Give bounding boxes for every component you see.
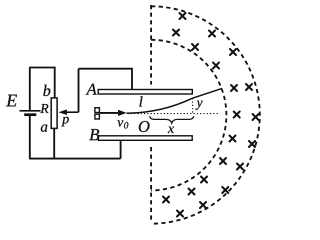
trajectory [127,88,223,113]
wire up to plate B [120,140,122,159]
wire slider up [78,69,80,113]
label O [139,121,150,132]
label a [41,125,47,132]
resistor R box [51,98,57,128]
field-into-page mark x6 [213,63,219,69]
field-into-page mark x14 [237,164,243,170]
battery E [20,111,41,115]
outer field arc [151,6,260,223]
field-into-page mark x11 [230,136,236,142]
wire resistor bottom down [53,128,55,158]
v0 arrow [100,110,127,116]
brace x [150,116,194,123]
field-into-page mark x15 [201,177,207,183]
field-into-page mark x10 [253,114,259,120]
field-into-page mark x1 [180,13,186,19]
field boundary vertical dashed bottom [150,147,152,221]
field-into-page mark x17 [189,189,195,195]
field-into-page mark x16 [222,187,228,193]
label E [6,95,17,107]
plate A [98,90,192,95]
field-into-page mark x9 [234,112,240,118]
field-into-page mark x19 [200,202,206,208]
slider arrow P [59,109,79,115]
field-into-page mark x4 [192,44,198,50]
wire bottom of loop to plate B lead [29,158,120,160]
field-into-page mark x5 [230,49,236,55]
field-into-page mark x8 [246,84,252,90]
wire down to plate A [131,69,133,90]
label b [43,85,50,96]
field boundary vertical dashed top [150,5,152,85]
plate B [98,136,192,141]
field-into-page mark x3 [209,31,215,37]
label R [40,104,48,113]
label B [89,129,99,140]
inner field arc [151,40,226,191]
axis dotted line [128,113,221,115]
label v0 [117,120,123,126]
field-into-page mark x18 [163,197,169,203]
field-into-page mark x12 [249,141,255,147]
label l [140,96,143,106]
field-into-page mark x7 [231,85,237,91]
label y [195,101,202,110]
wire battery top to loop top [29,68,31,111]
field-into-page mark x20 [177,211,183,217]
field-into-page mark x13 [220,158,226,164]
field x marks [163,13,259,217]
wire slider top across [79,68,133,70]
label A [86,84,97,95]
label p [61,117,68,127]
wire down to resistor top [54,68,56,99]
field-into-page mark x2 [173,30,179,36]
electron gun [95,108,100,119]
label x [168,127,174,133]
y dotted measure line [192,98,194,113]
wire battery bottom down [29,115,31,159]
wire top of loop [29,67,55,69]
